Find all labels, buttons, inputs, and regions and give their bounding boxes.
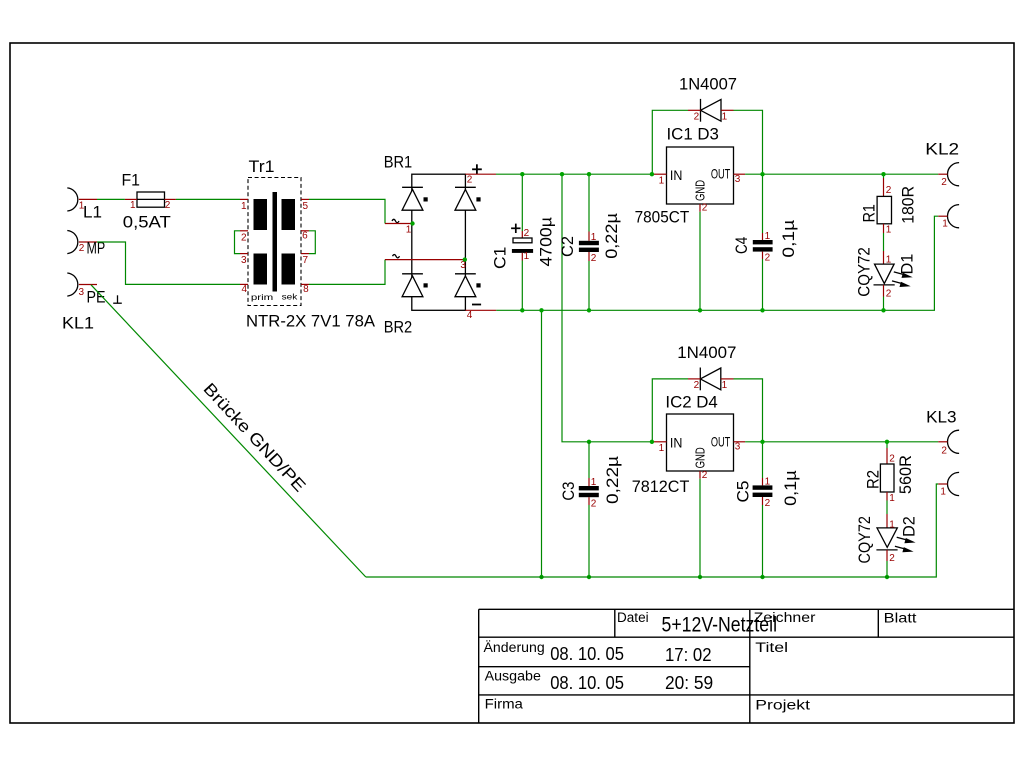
wire Tr1 pin5 to BR1 ~ input bbox=[309, 199, 385, 223]
pin line F1-1 bbox=[125, 198, 137, 200]
svg-text:KL3: KL3 bbox=[926, 407, 957, 426]
svg-text:1: 1 bbox=[889, 520, 895, 531]
ac tilde mark 1 bbox=[392, 219, 399, 222]
svg-text:Zeichner: Zeichner bbox=[754, 610, 816, 625]
svg-text:IN: IN bbox=[670, 167, 683, 183]
pin line Tr1-5 bbox=[301, 198, 309, 200]
wire L1 to F1 bbox=[97, 198, 125, 200]
svg-text:1: 1 bbox=[886, 254, 892, 265]
wire Tr1 pins 6-7 link bbox=[309, 231, 315, 254]
svg-text:3: 3 bbox=[735, 174, 741, 185]
svg-text:sek: sek bbox=[282, 292, 299, 302]
svg-text:L1: L1 bbox=[83, 203, 102, 222]
pin line IC1 GND bbox=[699, 204, 701, 212]
svg-text:0,1µ: 0,1µ bbox=[779, 220, 798, 258]
resistor R2 560R bbox=[880, 442, 894, 501]
pin line Tr1-2 bbox=[240, 230, 248, 232]
svg-text:OUT: OUT bbox=[711, 433, 731, 449]
svg-text:2: 2 bbox=[889, 553, 895, 564]
svg-text:2: 2 bbox=[694, 111, 700, 122]
svg-text:IN: IN bbox=[670, 434, 683, 450]
junction BR ac1 bbox=[410, 221, 414, 225]
svg-text:KL1: KL1 bbox=[62, 314, 94, 333]
svg-text:F1: F1 bbox=[122, 171, 141, 190]
svg-text:1N4007: 1N4007 bbox=[677, 343, 736, 362]
wire +DC rail top bbox=[496, 173, 652, 175]
junction R2 top bbox=[885, 440, 889, 444]
transformer Tr1 bbox=[248, 178, 301, 306]
connector KL3 pin 2 bbox=[948, 430, 960, 453]
svg-text:1: 1 bbox=[889, 493, 895, 504]
wire IC1 OUT rail to KL2 bbox=[745, 173, 938, 175]
svg-text:1: 1 bbox=[940, 486, 946, 497]
junction C3 bottom bbox=[587, 575, 591, 579]
svg-text:3: 3 bbox=[79, 287, 85, 298]
svg-text:KL2: KL2 bbox=[925, 139, 959, 158]
connector KL2 pin 1 bbox=[948, 205, 960, 228]
svg-text:Datei: Datei bbox=[617, 610, 649, 625]
svg-text:5: 5 bbox=[303, 201, 309, 212]
capacitor C2 (0,22u) bbox=[579, 174, 599, 310]
svg-text:GND: GND bbox=[693, 180, 708, 201]
junction IC2 GND rail bbox=[698, 575, 702, 579]
svg-text:IC2 D4: IC2 D4 bbox=[665, 392, 717, 411]
title block bbox=[479, 609, 1014, 723]
svg-text:BR2: BR2 bbox=[384, 318, 413, 337]
junction raw DC branch bbox=[560, 172, 564, 176]
wire D3 right to OUT rail bbox=[734, 110, 763, 174]
pin line KL2-1 bbox=[938, 215, 947, 217]
wire Tr1 pin8 to BR2 ~ input bbox=[309, 260, 385, 285]
junction BR ac3 bbox=[463, 257, 467, 261]
pin line KL3-2 bbox=[938, 441, 947, 443]
svg-text:3: 3 bbox=[735, 442, 741, 453]
svg-text:CQY72: CQY72 bbox=[854, 247, 873, 297]
svg-text:1: 1 bbox=[765, 231, 771, 242]
svg-text:Änderung: Änderung bbox=[484, 640, 545, 655]
pin line KL1-1 bbox=[79, 198, 97, 200]
junction D2 bottom bbox=[885, 575, 889, 579]
wire raw DC to IC2 input bbox=[562, 174, 652, 442]
wire D4 right to OUT rail bbox=[734, 379, 763, 442]
svg-text:7805CT: 7805CT bbox=[635, 208, 690, 227]
diode BR bottom-left bbox=[402, 274, 428, 297]
junction C4 bottom bbox=[760, 308, 764, 312]
plus mark bbox=[472, 164, 482, 174]
svg-text:1: 1 bbox=[886, 225, 892, 236]
wire IC2 GND down bbox=[699, 479, 701, 577]
junction C1 top bbox=[520, 172, 524, 176]
connector KL1 pin 3 (PE) bbox=[67, 273, 78, 296]
svg-text:1: 1 bbox=[659, 175, 665, 186]
wire Bruecke GND/PE diagonal bbox=[91, 285, 366, 577]
capacitor C1 (4700u polarized) bbox=[512, 174, 533, 310]
connector KL1 pin 1 (L1) bbox=[67, 188, 78, 211]
junction C4 top bbox=[760, 172, 764, 176]
svg-text:GND: GND bbox=[693, 447, 708, 468]
svg-text:D1: D1 bbox=[897, 254, 916, 275]
pin line D4 anode bbox=[721, 378, 734, 380]
svg-text:D2: D2 bbox=[899, 516, 918, 537]
svg-text:560R: 560R bbox=[896, 455, 915, 494]
svg-text:7: 7 bbox=[303, 255, 309, 266]
svg-text:180R: 180R bbox=[899, 186, 918, 224]
svg-text:08. 10. 05: 08. 10. 05 bbox=[550, 644, 624, 664]
svg-text:0,5AT: 0,5AT bbox=[123, 213, 171, 232]
wire IC1 GND down bbox=[699, 212, 701, 310]
svg-text:2: 2 bbox=[941, 445, 947, 456]
svg-text:4: 4 bbox=[242, 284, 248, 295]
pin line IC2 IN bbox=[652, 441, 667, 443]
svg-text:2: 2 bbox=[79, 243, 85, 254]
junction C5 top bbox=[760, 440, 764, 444]
pin line IC1 OUT bbox=[734, 173, 746, 175]
led D2 arrows bbox=[895, 537, 916, 552]
svg-text:2: 2 bbox=[889, 454, 895, 465]
svg-text:2: 2 bbox=[591, 253, 597, 264]
svg-text:2: 2 bbox=[702, 202, 708, 213]
wire IC2 OUT rail to KL3 bbox=[745, 441, 938, 443]
svg-text:CQY72: CQY72 bbox=[855, 516, 874, 563]
wire D3 left to IN rail bbox=[652, 110, 688, 174]
svg-text:3: 3 bbox=[460, 260, 466, 271]
wire D2 to GND rail bbox=[886, 561, 888, 577]
svg-text:2: 2 bbox=[765, 498, 771, 509]
svg-text:4700µ: 4700µ bbox=[537, 217, 556, 267]
svg-text:C4: C4 bbox=[732, 237, 751, 254]
svg-text:IC1 D3: IC1 D3 bbox=[667, 125, 719, 144]
polarity plus mark C1 bbox=[511, 224, 520, 233]
pin line D3 anode bbox=[721, 109, 734, 111]
junction C2 bottom bbox=[587, 308, 591, 312]
resistor R1 180R bbox=[877, 174, 891, 233]
wire 5V GND link down bbox=[541, 310, 543, 577]
svg-text:6: 6 bbox=[302, 231, 308, 242]
junction GND link bottom bbox=[539, 575, 543, 579]
diode BR bottom-right bbox=[455, 274, 481, 297]
svg-text:2: 2 bbox=[886, 185, 892, 196]
svg-text:1: 1 bbox=[659, 443, 665, 454]
svg-text:2: 2 bbox=[241, 233, 247, 244]
svg-text:Brücke GND/PE: Brücke GND/PE bbox=[200, 379, 310, 495]
svg-text:2: 2 bbox=[467, 175, 473, 186]
svg-text:0,1µ: 0,1µ bbox=[781, 470, 800, 506]
wire GND rail lower bbox=[366, 484, 939, 577]
svg-text:Firma: Firma bbox=[485, 696, 524, 711]
svg-text:NTR-2X 7V1 78A: NTR-2X 7V1 78A bbox=[246, 312, 376, 331]
fuse F1 bbox=[137, 192, 165, 207]
pin line D4 cathode bbox=[688, 378, 700, 380]
svg-text:08. 10. 05: 08. 10. 05 bbox=[550, 673, 624, 693]
svg-text:2: 2 bbox=[702, 470, 708, 481]
led D1 CQY72 bbox=[874, 251, 895, 297]
svg-text:prim: prim bbox=[251, 292, 273, 302]
svg-text:Titel: Titel bbox=[755, 640, 788, 655]
ac tilde mark 2 bbox=[393, 255, 400, 258]
svg-text:1: 1 bbox=[722, 111, 728, 122]
svg-text:7812CT: 7812CT bbox=[632, 477, 690, 496]
wire R2 to D2 bbox=[886, 501, 888, 515]
wire F1 to Tr1 pin1 bbox=[176, 198, 240, 200]
pin line Tr1-3 bbox=[240, 253, 248, 255]
diode BR top-left bbox=[402, 187, 428, 210]
svg-text:BR1: BR1 bbox=[384, 152, 413, 171]
led D2 CQY72 bbox=[876, 514, 897, 561]
svg-text:2: 2 bbox=[694, 380, 700, 391]
voltage regulator IC2 7812CT bbox=[667, 414, 734, 471]
svg-text:OUT: OUT bbox=[711, 166, 731, 182]
pin line BR -4 bbox=[465, 309, 496, 311]
svg-text:0,22µ: 0,22µ bbox=[603, 456, 622, 504]
junction C3 branch bbox=[587, 440, 591, 444]
pin line Tr1-4 bbox=[240, 283, 248, 285]
pin line KL1-3 bbox=[79, 284, 97, 286]
diode D4 1N4007 bypass bbox=[700, 368, 721, 391]
pin line Tr1-7 bbox=[301, 253, 309, 255]
connector KL1 pin 2 (MP) bbox=[67, 231, 78, 254]
svg-text:Ausgabe: Ausgabe bbox=[485, 668, 541, 683]
svg-text:1: 1 bbox=[722, 380, 728, 391]
connector KL3 pin 1 bbox=[948, 472, 960, 495]
svg-text:2: 2 bbox=[765, 252, 771, 263]
junction GND link top bbox=[539, 308, 543, 312]
pin line Tr1-8 bbox=[301, 283, 309, 285]
pin line BR +2 bbox=[465, 173, 496, 175]
diode BR top-right bbox=[455, 187, 481, 210]
svg-text:1: 1 bbox=[241, 201, 247, 212]
pin line Tr1-6 bbox=[301, 230, 309, 232]
svg-text:R2: R2 bbox=[864, 470, 883, 489]
svg-text:R1: R1 bbox=[860, 204, 879, 222]
svg-text:Blatt: Blatt bbox=[884, 611, 917, 626]
svg-text:1: 1 bbox=[591, 232, 597, 243]
svg-text:20: 59: 20: 59 bbox=[665, 673, 713, 693]
junction IC1 GND rail bbox=[698, 308, 702, 312]
pin line F1-2 bbox=[165, 198, 176, 200]
bridge rectifier BR1/BR2 bbox=[412, 174, 466, 310]
svg-text:1: 1 bbox=[591, 477, 597, 488]
svg-text:3: 3 bbox=[241, 255, 247, 266]
svg-text:2: 2 bbox=[886, 288, 892, 299]
pin line IC2 GND bbox=[699, 471, 701, 479]
svg-text:C5: C5 bbox=[733, 481, 752, 503]
svg-text:1: 1 bbox=[524, 251, 530, 262]
capacitor C4 (0,1u) bbox=[753, 174, 773, 310]
wire Tr1 pins 2-3 link bbox=[235, 231, 241, 254]
junction IC2 IN bbox=[650, 440, 654, 444]
led D1 arrows bbox=[892, 272, 913, 287]
svg-text:Projekt: Projekt bbox=[755, 697, 810, 712]
svg-text:1: 1 bbox=[765, 476, 771, 487]
pin line IC2 OUT bbox=[734, 441, 746, 443]
earth symbol at PE bbox=[113, 295, 122, 303]
pin line KL3-1 bbox=[938, 483, 947, 485]
svg-text:C1: C1 bbox=[491, 247, 510, 269]
svg-text:2: 2 bbox=[165, 200, 171, 211]
svg-text:1: 1 bbox=[942, 219, 948, 230]
junction C5 bottom bbox=[760, 575, 764, 579]
svg-text:2: 2 bbox=[524, 228, 530, 239]
pin line Tr1-1 bbox=[240, 198, 248, 200]
svg-text:MP: MP bbox=[87, 239, 106, 258]
pin line KL1-2 bbox=[79, 241, 97, 243]
svg-text:0,22µ: 0,22µ bbox=[602, 213, 621, 259]
capacitor C3 (0,22u) bbox=[579, 442, 599, 577]
capacitor C5 (0,1u) bbox=[753, 442, 773, 577]
svg-text:4: 4 bbox=[467, 310, 473, 321]
svg-text:2: 2 bbox=[941, 177, 947, 188]
svg-text:1N4007: 1N4007 bbox=[679, 74, 737, 93]
svg-text:8: 8 bbox=[303, 284, 309, 295]
minus mark bbox=[472, 304, 481, 306]
junction D1 bottom bbox=[881, 308, 885, 312]
svg-text:2: 2 bbox=[591, 499, 597, 510]
junction IC1 IN bbox=[650, 172, 654, 176]
wire GND rail upper bbox=[496, 216, 938, 310]
svg-text:1: 1 bbox=[130, 200, 136, 211]
junction C2 top bbox=[587, 172, 591, 176]
wire D1 to GND rail bbox=[883, 297, 885, 311]
diode D3 1N4007 bypass bbox=[701, 99, 722, 122]
wire R1 to D1 bbox=[883, 233, 885, 251]
junction C1 bottom bbox=[520, 308, 524, 312]
voltage regulator IC1 7805CT bbox=[667, 147, 734, 204]
wire MP to Tr1 pin4 bbox=[97, 242, 240, 284]
pin line BR ~3 bbox=[385, 259, 465, 261]
pin line IC1 IN bbox=[652, 173, 667, 175]
connector KL2 pin 2 bbox=[948, 163, 960, 186]
pin line KL2-2 bbox=[938, 173, 947, 175]
junction R1 top bbox=[881, 172, 885, 176]
pin line D3 cathode bbox=[688, 109, 701, 111]
wire D4 left to IC2 IN bbox=[652, 379, 688, 442]
svg-text:C3: C3 bbox=[559, 482, 578, 501]
svg-text:17: 02: 17: 02 bbox=[665, 645, 712, 665]
pin line BR ~1 bbox=[385, 223, 413, 225]
svg-text:Tr1: Tr1 bbox=[249, 157, 275, 176]
svg-text:C2: C2 bbox=[558, 236, 577, 257]
svg-text:1: 1 bbox=[406, 225, 412, 236]
